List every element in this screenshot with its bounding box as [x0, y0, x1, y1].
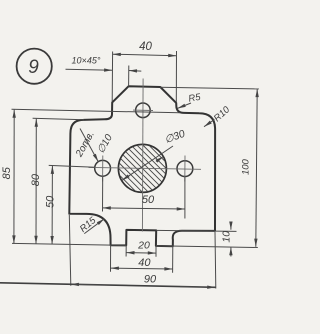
dim 10 right: top extension [156, 230, 236, 231]
hatching [111, 137, 174, 200]
dimension texts [1, 41, 252, 285]
centerline vertical [141, 79, 144, 232]
left hole vertical centerline [102, 156, 104, 182]
svg-text:50: 50 [44, 195, 56, 208]
svg-text:80: 80 [30, 173, 42, 186]
dim 100 dimension line [256, 89, 257, 247]
svg-text:10×45°: 10×45° [72, 55, 101, 65]
svg-text:85: 85 [1, 166, 13, 179]
dim 50 left: dimension line [51, 166, 53, 245]
svg-text:100: 100 [241, 158, 252, 175]
svg-text:40: 40 [138, 257, 151, 269]
dim 40 bottom dimension line [111, 267, 173, 270]
dim 40 bottom: extension lines [110, 245, 112, 271]
base extension line right part [156, 246, 258, 248]
dim 100 right: extension lines [160, 87, 259, 89]
dim 40 top: dimension line [113, 54, 177, 56]
part outline [69, 86, 215, 246]
task number badge circle 9 [17, 49, 52, 84]
small hole left d10 [95, 160, 111, 176]
dim 50 left top extension [49, 165, 95, 167]
dim 50 mid dimension line [103, 208, 185, 209]
svg-text:50: 50 [142, 194, 155, 206]
dim 50 mid: extension lines [102, 177, 104, 212]
svg-text:10: 10 [220, 231, 232, 243]
dim 80 top extension [33, 118, 84, 120]
dim 85: dimension line [13, 110, 15, 244]
svg-text:90: 90 [144, 273, 157, 285]
dim 10 arrows [230, 222, 232, 230]
dim 40 top: extension lines [111, 52, 113, 102]
leader d30 [122, 146, 173, 181]
leader R10 [204, 120, 215, 127]
svg-text:9: 9 [28, 57, 39, 78]
chamfer 10x45: leader + arrows [66, 69, 113, 70]
right hole vertical centerline [184, 156, 186, 182]
dim 90: extension lines [69, 215, 71, 286]
dim 80: dimension line [35, 119, 37, 244]
leader R15 [84, 219, 104, 234]
base extension line left part [12, 243, 126, 245]
centerline horizontal [89, 167, 202, 169]
svg-text:40: 40 [139, 41, 152, 53]
dim 85 top extension (long) [12, 109, 181, 113]
leader R5 [178, 103, 192, 108]
tab hole horizontal centerline [133, 109, 153, 111]
leader d10 2otv [80, 129, 98, 162]
center hole hatched circle d30 [118, 144, 166, 192]
tab hole d10 [136, 103, 151, 118]
small hole right d10 [177, 161, 193, 177]
svg-text:20: 20 [137, 240, 150, 252]
dim 20: extension lines [125, 245, 127, 256]
dim 20 dimension line [126, 252, 156, 255]
